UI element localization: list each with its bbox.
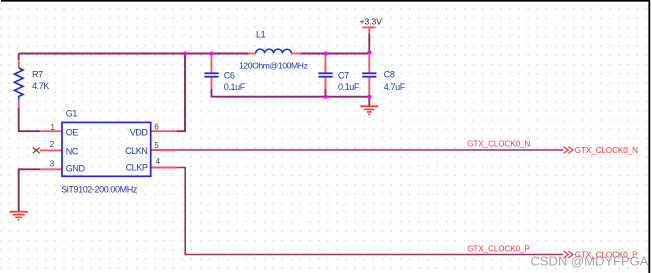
svg-text:0.1uF: 0.1uF [338,82,360,92]
svg-text:GTX_CLOCK0_N: GTX_CLOCK0_N [575,146,638,155]
svg-text:+3.3V: +3.3V [360,16,383,26]
svg-text:NC: NC [66,146,79,156]
svg-text:4.7uF: 4.7uF [384,82,406,92]
svg-text:CSDN @MDYFPGA: CSDN @MDYFPGA [531,253,649,268]
svg-text:C7: C7 [338,70,349,80]
svg-text:OE: OE [66,128,79,138]
svg-text:4.7K: 4.7K [32,81,49,91]
svg-text:GTX_CLOCK0_N: GTX_CLOCK0_N [467,140,530,149]
svg-text:3: 3 [50,159,55,169]
svg-text:R7: R7 [32,70,43,80]
svg-text:2: 2 [50,139,55,149]
svg-text:6: 6 [154,121,159,131]
svg-text:CLKP: CLKP [126,162,148,172]
svg-text:GND: GND [66,163,86,173]
svg-text:VDD: VDD [130,128,149,138]
svg-text:L1: L1 [256,29,266,39]
svg-text:5: 5 [154,140,159,150]
svg-text:C6: C6 [224,70,235,80]
svg-text:G1: G1 [66,109,78,119]
svg-text:0.1uF: 0.1uF [224,82,246,92]
svg-text:GTX_CLOCK0_P: GTX_CLOCK0_P [467,245,530,254]
svg-text:120Ohm@100MHz: 120Ohm@100MHz [239,61,308,71]
svg-text:CLKN: CLKN [125,146,147,156]
svg-text:SiT9102-200.00MHz: SiT9102-200.00MHz [61,185,138,195]
svg-text:C8: C8 [384,69,395,79]
svg-text:4: 4 [156,156,161,166]
svg-text:1: 1 [50,122,55,132]
